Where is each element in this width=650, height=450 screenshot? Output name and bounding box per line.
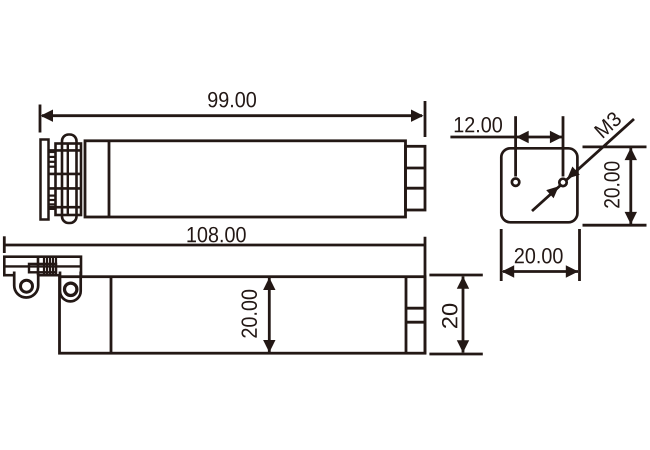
dim 12.00 left arrowhead [516, 131, 529, 143]
dim 99.00 right arrowhead [411, 110, 424, 122]
dim 20.00 bottom right extension line [578, 229, 581, 281]
M3 lower arrowhead [546, 186, 559, 198]
bracket thread ticks upper group [49, 152, 56, 167]
label 20.00 (rotated) [241, 290, 257, 338]
top view end-cap boundary line [108, 141, 111, 217]
hinge lug 2 (white filled) [60, 272, 81, 302]
hinge plate vertical ticks [44, 258, 56, 275]
dim 20.00 bottom left extension line [500, 229, 503, 281]
end view right hole (M3) [559, 179, 566, 186]
side view connector divider 1 [406, 307, 425, 310]
label 99.00 [208, 92, 256, 108]
top view connector block (3 stacked boxes) [406, 146, 426, 210]
dim 20.00 right-side bottom arrowhead [625, 212, 637, 225]
dim 20.00 right-side top extension line [583, 145, 647, 148]
dim 20.00 bottom arrowhead [263, 340, 275, 353]
dim 20 right top extension line [429, 274, 482, 277]
M3 leader diagonal line [532, 119, 634, 211]
end view rounded square [501, 148, 577, 222]
dim 108.00 right extension line [424, 237, 427, 354]
label 12.00 [455, 117, 502, 133]
side view connector divider 2 [406, 321, 425, 324]
dim 20.00 bottom right arrowhead [566, 265, 579, 277]
hinge plate divider [37, 257, 40, 276]
top view body outline [85, 141, 406, 217]
end view left hole [512, 179, 519, 186]
dim 20.00 right-side top arrowhead [625, 148, 637, 161]
hinge small box [29, 264, 56, 272]
bracket inner vertical bar [67, 144, 69, 216]
side view connector boundary line [405, 277, 408, 354]
dim 20.00 (body height) dimension line [268, 278, 271, 352]
dim 108.00 dimension line (no arrowheads) [4, 244, 425, 247]
side view body outline [60, 277, 426, 354]
side view end-cap boundary line [110, 277, 113, 354]
dim 99.00 left extension line [39, 105, 42, 133]
hinge lug 1 hole [21, 280, 33, 292]
hinge lug 1 (white filled) [14, 272, 38, 298]
hinge lug 2 hole [65, 283, 77, 295]
dim 20.00 bottom left arrowhead [502, 265, 515, 277]
bracket horizontal band 1 [49, 149, 82, 152]
label 20 (rotated) [442, 304, 458, 328]
dim 12.00 dimension + leader line [450, 136, 563, 139]
dim 108.00 left extension line [3, 236, 6, 253]
dim 12.00 right extension line [562, 116, 565, 176]
bracket thread ticks lower group [49, 196, 56, 209]
bracket horizontal band 3 [49, 187, 82, 190]
label 20.00 bottom [515, 248, 563, 264]
dim 20 dimension line [462, 277, 465, 353]
dim 20 bottom arrowhead [457, 340, 469, 353]
M3 upper arrowhead [567, 167, 580, 179]
dim 20.00 bottom dimension line [503, 270, 578, 273]
bracket rounded cap [62, 135, 77, 224]
dim 99.00 dimension line [42, 114, 422, 117]
hinge plate mid line [4, 265, 81, 267]
hinge top plate (white filled) [4, 257, 81, 276]
dim 20.00 right-side dimension line [629, 148, 632, 224]
bracket horizontal band 2 [49, 173, 82, 176]
dim 20 right bottom extension line [429, 353, 482, 356]
dim 20.00 top arrowhead [263, 278, 275, 291]
bracket horizontal band 4 [49, 206, 82, 209]
dim 20.00 right-side bottom extension line [583, 224, 647, 227]
dim 99.00 right extension line [424, 101, 427, 137]
bracket flange rect [56, 144, 82, 216]
label 20.00 right-side (rotated) [604, 162, 620, 208]
label 108.00 [187, 227, 245, 243]
dim 12.00 left extension line [514, 116, 517, 176]
label M3 (rotated) [594, 111, 623, 139]
dim 12.00 right arrowhead [550, 131, 563, 143]
bracket plate (left end, top view) [41, 140, 49, 220]
dim 20 top arrowhead [457, 276, 469, 289]
dim 99.00 left arrowhead [41, 110, 54, 122]
